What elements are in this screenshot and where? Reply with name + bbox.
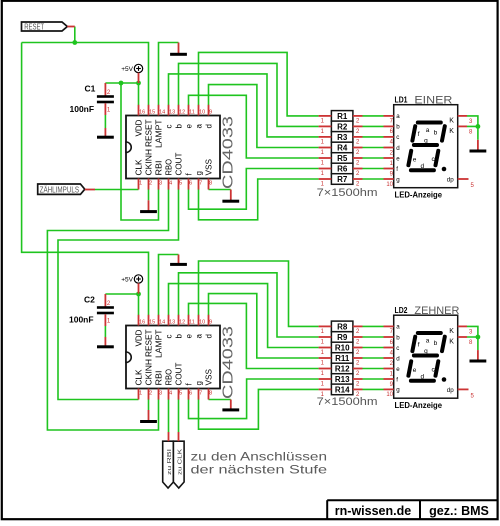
display pin c (4) — [384, 136, 394, 138]
pin 2 of IC2 — [148, 389, 150, 400]
svg-text:8: 8 — [209, 391, 212, 397]
svg-text:COUT: COUT — [174, 362, 183, 385]
svg-text:8: 8 — [209, 181, 212, 187]
svg-text:ZÄHLIMPULS: ZÄHLIMPULS — [40, 185, 80, 194]
svg-text:gez.: BMS: gez.: BMS — [429, 504, 489, 518]
svg-text:f: f — [396, 166, 398, 173]
display pin K (8) — [458, 336, 467, 338]
svg-text:CKINH: CKINH — [144, 359, 153, 386]
+5V supply P2 — [134, 275, 142, 283]
svg-text:d: d — [420, 163, 424, 170]
svg-text:4: 4 — [169, 391, 172, 397]
wire IC1 CKINH to ground — [148, 189, 150, 200]
svg-text:g: g — [194, 171, 203, 175]
ground at IC1 CKINH — [140, 200, 157, 213]
svg-text:dp: dp — [447, 177, 454, 184]
pin 6 of IC2 — [188, 389, 190, 400]
wire segment b IC1 pin12 to R2 — [179, 63, 319, 126]
svg-text:14: 14 — [159, 109, 165, 115]
wire segment d IC2 pin9 to R11 — [209, 294, 319, 358]
svg-text:15: 15 — [149, 109, 155, 115]
pin 4 of IC1 — [168, 179, 170, 190]
svg-text:VSS: VSS — [204, 159, 213, 176]
svg-text:der nächsten Stufe: der nächsten Stufe — [191, 463, 328, 477]
wire segment e IC2 pin11 to R12 — [189, 303, 319, 368]
op-amp substitute: counter IC IC2 CD4033 — [126, 315, 237, 400]
wire R12 to LD2 pin — [363, 368, 384, 370]
svg-text:100nF: 100nF — [70, 104, 95, 114]
wire segment a IC1 pin10 to R1 — [199, 52, 319, 116]
wire segment c IC1 pin13 to R3 — [169, 74, 319, 137]
svg-text:R5: R5 — [337, 154, 348, 163]
svg-text:CLK: CLK — [134, 369, 143, 386]
wire segment f IC1 pin6 to R6 — [189, 169, 319, 210]
wire RESET flag drop — [74, 27, 76, 43]
svg-text:RESET: RESET — [24, 22, 44, 31]
svg-text:e: e — [413, 367, 417, 374]
wire R3 to LD1 pin — [363, 136, 384, 138]
svg-text:CLK: CLK — [134, 159, 143, 176]
ground at IC2 LAMPT — [170, 255, 187, 266]
pin 15 of IC1 — [148, 105, 150, 116]
svg-text:d: d — [204, 124, 213, 128]
svg-text:a: a — [396, 113, 400, 120]
display pin f (9) — [384, 378, 394, 380]
pin 10 of IC1 — [198, 105, 200, 116]
resistor R10 — [319, 342, 363, 356]
svg-text:R3: R3 — [337, 133, 348, 142]
svg-text:K: K — [449, 128, 454, 135]
wire R6 to LD1 pin — [363, 168, 384, 170]
pin 1 of IC2 — [138, 389, 140, 400]
svg-text:RBI: RBI — [154, 371, 163, 386]
svg-text:d: d — [396, 145, 400, 152]
display pin dp (5) — [458, 178, 469, 180]
svg-text:d: d — [204, 334, 213, 338]
junction +5V/VDD junction IC2 — [136, 292, 141, 297]
svg-text:RBI: RBI — [154, 161, 163, 176]
svg-text:b: b — [396, 334, 400, 341]
svg-text:6: 6 — [189, 391, 192, 397]
wire LD2 K to ground — [467, 337, 478, 350]
wire IC2 VSS to ground — [209, 399, 231, 401]
wire +5V to C2 and IC2 VDD — [105, 294, 138, 315]
wire IC1 COUT to IC2 CLK — [58, 189, 179, 399]
ground at IC1 VSS — [222, 190, 239, 203]
svg-text:rn-wissen.de: rn-wissen.de — [335, 504, 411, 518]
pin 9 of IC2 — [208, 315, 210, 326]
ground at LD2 K — [470, 350, 487, 362]
pin 3 of IC2 — [158, 389, 160, 400]
pin 12 of IC2 — [178, 315, 180, 326]
svg-text:e: e — [413, 156, 417, 163]
svg-text:R13: R13 — [335, 375, 350, 384]
svg-text:e: e — [184, 124, 193, 129]
svg-text:R7: R7 — [337, 175, 348, 184]
pin 9 of IC1 — [208, 105, 210, 116]
svg-text:e: e — [184, 334, 193, 339]
svg-text:RBO: RBO — [164, 369, 173, 386]
display pin a (7) — [384, 115, 394, 117]
svg-text:+5V: +5V — [121, 66, 133, 73]
7-segment digit of LD1 — [408, 123, 444, 171]
svg-text:15: 15 — [149, 319, 155, 325]
pin of +5V P1 — [138, 73, 140, 83]
LED display LD2 — [384, 305, 475, 410]
wire R9 to LD2 pin — [363, 336, 384, 338]
wire RESET left rail to IC2 pin15 — [22, 43, 149, 316]
wire ZAEHLIMPULS to IC1 CLK — [95, 189, 139, 191]
pin 8 of IC2 — [208, 389, 210, 400]
resistor R9 — [319, 332, 363, 346]
svg-text:100nF: 100nF — [69, 315, 94, 325]
svg-text:b: b — [396, 124, 400, 131]
svg-text:4: 4 — [169, 181, 172, 187]
svg-text:2: 2 — [149, 181, 152, 187]
wire R14 to LD2 pin — [363, 388, 384, 390]
pin 12 of IC1 — [178, 105, 180, 116]
resistor network RN2 — [319, 321, 363, 398]
wire R1 to LD1 pin — [363, 115, 384, 117]
display pin b (6) — [384, 125, 394, 127]
svg-text:16: 16 — [139, 319, 145, 325]
display pin g (10) — [384, 178, 394, 180]
svg-text:+5V: +5V — [121, 276, 133, 283]
display pin a (7) — [384, 325, 394, 327]
svg-text:R1: R1 — [337, 112, 348, 121]
svg-text:zu CLK: zu CLK — [178, 449, 184, 475]
svg-text:16: 16 — [139, 109, 145, 115]
svg-text:14: 14 — [159, 319, 165, 325]
resistor R8 — [319, 321, 363, 335]
svg-text:CD4033: CD4033 — [221, 116, 237, 189]
wire LD2 K3 to K8 — [467, 326, 478, 337]
svg-text:g: g — [396, 176, 400, 183]
pin of +5V P2 — [138, 283, 140, 293]
title block — [327, 500, 498, 519]
pin 4 of IC2 — [168, 389, 170, 400]
svg-text:d: d — [420, 374, 424, 381]
svg-text:1: 1 — [139, 181, 142, 187]
svg-text:R9: R9 — [337, 333, 348, 342]
svg-text:g: g — [424, 348, 428, 355]
pin 14 of IC1 — [158, 105, 160, 116]
svg-text:a: a — [194, 334, 203, 339]
pin 13 of IC1 — [168, 105, 170, 116]
svg-text:RBO: RBO — [164, 159, 173, 176]
connector zu CLK — [173, 441, 184, 488]
svg-text:K: K — [449, 339, 454, 346]
svg-text:zu den Anschlüssen: zu den Anschlüssen — [191, 450, 328, 464]
wire R13 to LD2 pin — [363, 378, 384, 380]
pin 7 of IC2 — [198, 389, 200, 400]
svg-text:11: 11 — [189, 109, 195, 115]
svg-text:CD4033: CD4033 — [221, 326, 237, 399]
pin of RESET flag — [67, 26, 75, 28]
svg-text:12: 12 — [179, 109, 185, 115]
wire segment b IC2 pin12 to R9 — [179, 273, 319, 337]
pin 5 of IC1 — [178, 179, 180, 190]
wire R5 to LD1 pin — [363, 157, 384, 159]
svg-text:R4: R4 — [337, 144, 348, 153]
svg-text:5: 5 — [179, 391, 182, 397]
svg-text:f: f — [418, 342, 420, 349]
ground below C1 — [97, 128, 114, 139]
svg-text:9: 9 — [209, 109, 212, 115]
resistor R13 — [319, 374, 363, 388]
svg-text:1: 1 — [139, 391, 142, 397]
wire segment d IC1 pin9 to R4 — [209, 85, 319, 148]
svg-text:7: 7 — [199, 391, 202, 397]
resistor R1 — [319, 111, 363, 125]
pin 3 of IC1 — [158, 179, 160, 190]
wire segment a IC2 pin10 to R8 — [199, 261, 319, 326]
svg-text:dp: dp — [447, 387, 454, 394]
wire R4 to LD1 pin — [363, 147, 384, 149]
wire LD1 K to ground — [467, 126, 478, 139]
svg-text:R2: R2 — [337, 123, 348, 132]
svg-text:g: g — [424, 137, 428, 144]
wire R8 to LD2 pin — [363, 325, 384, 327]
svg-text:R11: R11 — [335, 354, 350, 363]
wire IC1 RBO to IC2 RBI — [47, 189, 168, 430]
svg-text:COUT: COUT — [174, 152, 183, 175]
connector zu RBI — [163, 441, 174, 488]
pin 6 of IC1 — [188, 179, 190, 190]
svg-text:RESET: RESET — [144, 329, 153, 357]
pin 13 of IC2 — [168, 315, 170, 326]
svg-text:b: b — [434, 340, 438, 347]
svg-text:5: 5 — [179, 181, 182, 187]
wire +5V to IC1 RBI — [121, 83, 159, 220]
svg-text:EINER: EINER — [414, 95, 452, 107]
svg-text:a: a — [194, 124, 203, 129]
svg-text:R12: R12 — [335, 365, 350, 374]
decimal point of LD1 — [442, 167, 447, 172]
display pin K (8) — [458, 125, 467, 127]
wire R10 to LD2 pin — [363, 347, 384, 349]
resistor network RN1 — [319, 111, 363, 188]
svg-text:e: e — [396, 155, 400, 162]
svg-text:R6: R6 — [337, 165, 348, 174]
svg-text:10: 10 — [386, 182, 393, 188]
pin 2 of IC1 — [148, 179, 150, 190]
resistor R14 — [319, 384, 363, 398]
resistor R5 — [319, 153, 363, 167]
pin 16 of IC2 — [138, 315, 140, 326]
resistor R7 — [319, 174, 363, 188]
junction LD1 K junction — [476, 124, 481, 129]
svg-text:ZEHNER: ZEHNER — [414, 305, 459, 317]
svg-text:c: c — [396, 345, 399, 352]
svg-text:10: 10 — [386, 392, 393, 398]
svg-text:a: a — [426, 127, 430, 134]
display pin g (10) — [384, 388, 394, 390]
svg-text:3: 3 — [159, 391, 162, 397]
svg-text:13: 13 — [169, 109, 175, 115]
display pin e (1) — [384, 368, 394, 370]
svg-text:2: 2 — [149, 391, 152, 397]
junction LD2 K junction — [476, 335, 481, 340]
svg-text:d: d — [396, 355, 400, 362]
pin 5 of IC2 — [178, 389, 180, 400]
wire IC2 CKINH to ground — [148, 399, 150, 410]
display pin dp (5) — [458, 388, 469, 390]
wire R7 to LD1 pin — [363, 178, 384, 180]
flag RESET — [22, 22, 68, 31]
svg-text:6: 6 — [189, 181, 192, 187]
svg-text:LED-Anzeige: LED-Anzeige — [395, 189, 443, 199]
display pin f (9) — [384, 168, 394, 170]
svg-text:VDD: VDD — [134, 329, 143, 346]
svg-text:g: g — [396, 387, 400, 394]
svg-text:9: 9 — [209, 319, 212, 325]
svg-text:7×1500hm: 7×1500hm — [317, 187, 378, 199]
flag ZAEHLIMPULS — [38, 184, 85, 194]
svg-text:b: b — [174, 334, 183, 339]
display pin K (3) — [458, 325, 467, 327]
svg-text:3: 3 — [159, 181, 162, 187]
display pin c (4) — [384, 347, 394, 349]
+5V supply P1 — [134, 64, 142, 72]
junction +5V/RBI junction — [119, 81, 124, 86]
display pin d (2) — [384, 357, 394, 359]
wire IC1 LAMPT to ground — [159, 43, 179, 106]
wire segment g IC1 pin7 to R7 — [199, 179, 319, 220]
svg-text:VDD: VDD — [134, 119, 143, 136]
svg-text:12: 12 — [179, 319, 185, 325]
pin 10 of IC2 — [198, 315, 200, 326]
svg-text:e: e — [396, 366, 400, 373]
wire segment g IC2 pin7 to R14 — [199, 389, 319, 429]
svg-text:R8: R8 — [337, 323, 348, 332]
op-amp substitute: counter IC IC1 CD4033 — [126, 105, 237, 190]
pin 15 of IC2 — [148, 315, 150, 326]
ground at LD1 K — [470, 140, 487, 153]
svg-text:VSS: VSS — [204, 369, 213, 386]
pin 1 of IC1 — [138, 179, 140, 190]
svg-text:RESET: RESET — [144, 119, 153, 147]
svg-text:f: f — [418, 131, 420, 138]
resistor R6 — [319, 163, 363, 177]
capacitor C1 100nF — [70, 83, 114, 115]
svg-text:13: 13 — [169, 319, 175, 325]
svg-text:K: K — [449, 118, 454, 125]
junction RESET junction — [72, 40, 77, 45]
pin 16 of IC1 — [138, 105, 140, 116]
svg-text:CKINH: CKINH — [144, 149, 153, 176]
junction +5V/VDD junction — [136, 81, 141, 86]
svg-text:zu RBI: zu RBI — [167, 448, 173, 475]
svg-text:b: b — [434, 130, 438, 137]
pin 11 of IC1 — [188, 105, 190, 116]
display pin e (1) — [384, 157, 394, 159]
svg-text:7×1500hm: 7×1500hm — [317, 396, 378, 408]
svg-text:11: 11 — [189, 319, 195, 325]
svg-text:7: 7 — [199, 181, 202, 187]
svg-text:LED-Anzeige: LED-Anzeige — [395, 400, 443, 410]
wire +5V to C1 and IC1 VDD — [105, 83, 138, 105]
resistor R4 — [319, 142, 363, 156]
wire segment f IC2 pin6 to R13 — [189, 379, 319, 419]
decimal point of LD2 — [442, 377, 447, 382]
resistor R12 — [319, 363, 363, 377]
ground at IC2 VSS — [222, 400, 239, 412]
wire segment e IC1 pin11 to R5 — [189, 95, 319, 158]
resistor R11 — [319, 353, 363, 367]
wire C2 to ground — [104, 326, 106, 337]
pin 8 of IC1 — [208, 179, 210, 190]
svg-text:a: a — [426, 338, 430, 345]
7-segment digit of LD2 — [408, 333, 444, 381]
wire C1 to ground — [104, 115, 106, 128]
wire IC2 LAMPT to ground — [159, 255, 179, 316]
ground below C2 — [97, 337, 114, 348]
display pin K (3) — [458, 115, 467, 117]
svg-text:c: c — [164, 125, 173, 129]
svg-text:f: f — [396, 376, 398, 383]
svg-text:R14: R14 — [335, 386, 350, 395]
svg-text:LD2: LD2 — [395, 306, 408, 315]
display pin d (2) — [384, 147, 394, 149]
resistor R2 — [319, 121, 363, 135]
svg-text:C2: C2 — [84, 295, 95, 305]
wire segment c IC2 pin13 to R10 — [169, 284, 319, 348]
svg-text:c: c — [396, 134, 399, 141]
wire R2 to LD1 pin — [363, 125, 384, 127]
svg-text:LAMPT: LAMPT — [154, 329, 163, 358]
display pin b (6) — [384, 336, 394, 338]
wire IC2 RBO to connector — [168, 399, 170, 432]
svg-text:b: b — [174, 124, 183, 129]
pin 11 of IC2 — [188, 315, 190, 326]
svg-text:R10: R10 — [335, 344, 350, 353]
pin of zu RBI connector — [168, 432, 170, 441]
svg-text:10: 10 — [199, 109, 205, 115]
LED display LD1 — [384, 95, 475, 200]
wire IC1 VSS to ground — [209, 189, 231, 191]
capacitor C2 100nF — [69, 294, 114, 326]
wire IC2 COUT to connector — [178, 399, 180, 432]
svg-text:K: K — [449, 328, 454, 335]
svg-text:C1: C1 — [85, 84, 96, 94]
svg-text:a: a — [396, 324, 400, 331]
ground at IC2 CKINH — [140, 410, 157, 423]
pin of ZAEHLIMPULS flag — [85, 189, 95, 191]
pin of zu CLK connector — [178, 432, 180, 441]
svg-text:c: c — [164, 335, 173, 339]
wire LD1 K3 to K8 — [467, 116, 478, 127]
svg-text:10: 10 — [199, 319, 205, 325]
svg-text:g: g — [194, 381, 203, 385]
ground at IC1 LAMPT — [170, 43, 187, 56]
pin 7 of IC1 — [198, 179, 200, 190]
resistor R3 — [319, 132, 363, 146]
svg-text:LAMPT: LAMPT — [154, 119, 163, 148]
svg-text:LD1: LD1 — [395, 95, 408, 104]
wire RESET rail to IC1 pin15 — [22, 43, 149, 106]
wire R11 to LD2 pin — [363, 357, 384, 359]
pin 14 of IC2 — [158, 315, 160, 326]
